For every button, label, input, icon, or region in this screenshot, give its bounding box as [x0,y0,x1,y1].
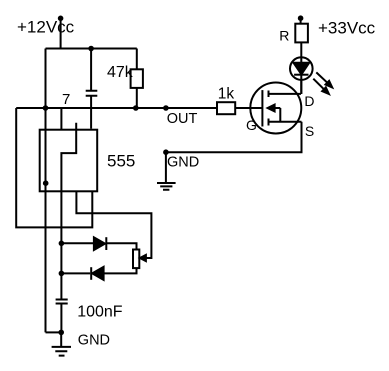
resistor 47k [131,69,143,88]
resistor R [295,24,308,43]
LED circle [290,57,313,80]
wire drain vertical through LED [300,42,302,94]
svg-text:7: 7 [62,91,70,108]
wire left feedback loop [16,108,92,227]
supply +12Vcc terminal dot [58,15,64,21]
LED cathode bar [294,74,308,76]
svg-text:GND: GND [78,333,110,349]
ground bottom [52,332,71,355]
transistor Q1 body arrow [268,105,275,112]
transistor Q1 circle [250,83,301,134]
svg-text:D: D [304,93,314,109]
LED triangle [294,63,310,75]
node inside 555 [43,180,49,186]
node gnd junction [58,330,64,336]
wire bottom diode row [61,272,90,274]
wire top rail [46,48,137,50]
transistor Q1 drain lead [269,93,302,95]
supply +33Vcc terminal dot [298,15,304,21]
transistor Q1 channel ticks [268,91,270,126]
wire below cap to gnd corner [60,304,62,333]
ground right [157,152,176,190]
transistor Q1 gate bar [261,90,263,126]
node OUT-47k junction [133,105,139,111]
wire cap C1 top [90,49,92,91]
node GND label anchor [163,149,169,155]
svg-text:G: G [246,117,257,133]
wire cap C1 bottom to 555 [90,96,92,129]
capacitor 100nF [56,300,68,304]
wire 47k bottom [136,88,138,108]
op 555 box [40,130,97,192]
wire inner zigzag [61,123,76,300]
svg-text:OUT: OUT [167,111,198,127]
svg-text:+33Vcc: +33Vcc [318,18,376,37]
wire left long vertical [45,49,47,333]
wire top diode row [61,242,94,244]
node rail-cap junction [88,46,94,52]
capacitor C1 [86,91,98,96]
svg-text:S: S [305,123,314,139]
potentiometer body [133,250,139,269]
wire 1k to gate [235,107,262,109]
node OUT label anchor [163,105,169,111]
node bottom diode junction [59,271,65,277]
node top diode junction [59,241,65,247]
wire +33Vcc to R [300,18,302,24]
wire gnd bottom corner [46,331,62,333]
diode D1 [94,237,105,250]
potentiometer wiper arrow [140,255,146,261]
transistor Q1 source lead [269,121,302,123]
svg-text:+12Vcc: +12Vcc [17,18,75,37]
wire GND rail to source [166,122,302,152]
svg-text:GND: GND [167,154,199,170]
svg-text:100nF: 100nF [77,304,123,321]
LED light arrow 2 [313,79,324,90]
svg-text:1k: 1k [218,85,235,102]
wire +12Vcc down [60,18,62,48]
wire diode D2 to pot bottom [104,268,137,273]
svg-text:47k: 47k [107,64,134,81]
node OUT-left junction [43,105,49,111]
svg-text:555: 555 [107,151,135,170]
wire OUT horizontal [16,107,217,109]
diode D2 [90,267,92,280]
wire bottom pin to pot wiper [76,191,151,258]
wire diode D1 to pot top [106,243,136,249]
svg-text:R: R [279,27,289,43]
wire pin 7 stub [60,108,62,130]
wire 47k top [136,49,138,70]
LED light arrow 1 [316,72,327,82]
resistor 1k [217,102,235,114]
